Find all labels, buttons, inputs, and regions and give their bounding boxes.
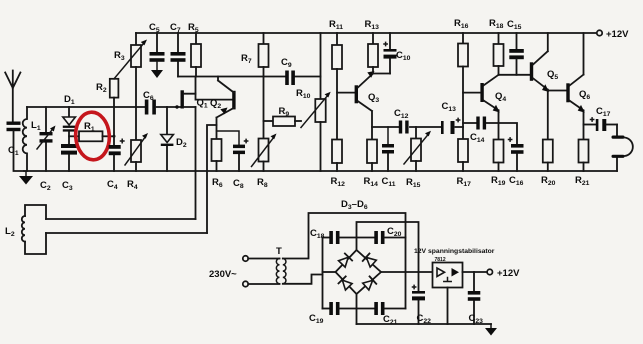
diode D1 [63,94,76,144]
capacitor C1 [7,122,25,172]
capacitor C3 [61,144,77,192]
capacitor C14 [463,117,499,145]
voltage regulator U1 7812 [414,248,495,288]
capacitor C21 [357,302,406,326]
ground bus (bottom of main circuit) [24,170,617,172]
capacitor C19 [309,302,357,325]
variable resistor R3 (wiper feeds R2) [114,33,147,107]
svg-text:12V spanningstabilisator: 12V spanningstabilisator [414,248,495,255]
capacitor C9 (series coupling) [281,57,295,85]
capacitor C17 (electrolytic to earphone) [584,106,618,131]
resistor R2 [96,79,118,138]
resistor R21 [575,140,590,188]
capacitor C6 (series coupling on signal line) [143,90,156,115]
resistor R18 [489,18,504,75]
wire (regulator output) [463,271,488,273]
wire (Q3 collector node to C10) [373,73,390,75]
svg-text:+12V: +12V [497,268,520,279]
capacitor C16 (electrolytic) [499,123,524,187]
wire (Q1 drain to Q2 base) [196,94,233,100]
wire (Q5 emitter to Q6 base) [548,90,567,92]
variable resistor R8 [252,134,277,190]
svg-text:7812: 7812 [435,257,446,263]
wire (bridge left vertex lead) [323,271,336,273]
resistor R1 [69,121,114,141]
resistor R6 [212,139,223,189]
capacitor C15 [507,19,524,75]
wire (regulator ground pin) [447,288,449,325]
wire (bridge diamond sides) [336,250,382,294]
bridge rectifier D3-D6 [341,199,368,211]
wire (bridge top/bottom vertex leads) [356,238,358,309]
wire (rectified output row to regulator) [381,271,433,273]
+12V output terminal [487,268,520,279]
+12V terminal [597,29,629,40]
inductor L1 [23,107,41,171]
230V terminals [209,256,248,287]
antenna [5,71,20,122]
ground [19,171,33,185]
transistor Q4 [480,75,506,140]
variable resistor R10 [296,33,331,171]
wire (DC+ top frame from bridge to C22 column) [357,222,419,272]
resistor R20 [541,140,556,188]
variable resistor R4 [125,107,148,191]
+12V supply rail (top) [136,32,597,34]
svg-text:D3–D6: D3–D6 [341,199,368,211]
loop antenna L2 [5,205,207,254]
svg-text:T: T [276,246,282,257]
capacitor C18 [310,228,357,244]
capacitor C4 (electrolytic) [107,136,124,191]
resistor R12 [331,140,346,189]
resistor R14 [364,140,379,189]
PSU ground rail [357,323,492,325]
variable resistor R15 [404,127,431,189]
wire (supply node row under R5: C7 to C9 to R10 branch) [178,76,321,78]
resistor R11 [329,19,343,140]
svg-text:230V~: 230V~ [209,269,237,280]
capacitor C12 [394,108,409,134]
capacitor C10 (electrolytic from rail) [384,33,411,74]
resistor R7 [241,33,269,77]
wire (Q1 source down to loop antenna L2) [195,107,197,219]
wire (secondary bottom to bridge left) [283,275,323,284]
diode D5 (lower-left arm) [339,276,353,290]
capacitor C8 (electrolytic) [217,131,248,190]
transistor Q6 [566,33,590,140]
earphone [612,125,633,172]
resistor R19 [491,140,506,188]
variable capacitor C2 [37,107,56,192]
diode D3 (upper-left arm) [338,254,352,268]
wire (divider tap to Q4 base) [463,92,480,94]
resistor R17 [457,139,472,188]
wire (after C6 to Q1 gate) [157,106,181,108]
red highlight ellipse around R1 [74,111,111,161]
capacitor C22 (electrolytic reservoir) [412,272,431,325]
capacitor C7 [170,22,186,77]
diode D2 [161,107,187,171]
svg-text:+12V: +12V [606,29,629,40]
capacitor C5 (decoupling to ground) [149,22,165,78]
wire (bridge bottom to PSU ground rail) [356,309,358,325]
wire (Q4 collector node to Q5 base) [499,74,530,76]
node (junction dot at Q1 gate) [175,105,178,108]
wire (R7 bottom down to R9/R8) [263,77,265,139]
resistor R13 [365,19,380,74]
transistor Q5 [530,33,559,140]
resistor R16 [454,18,469,139]
transistor Q3 [355,71,380,140]
transistor Q2 [210,77,236,140]
capacitor C23 [468,272,483,325]
capacitor C20 [357,226,406,244]
wire (bridge left rail) [322,238,324,309]
transformer T [276,246,286,284]
resistor R5 [188,22,201,77]
node: tuned-circuit top line [27,106,144,108]
diode D6 (lower-right arm) [362,276,376,290]
capacitor C11 [382,127,396,188]
PSU ground [485,324,497,336]
wire (mains to transformer primary) [248,259,279,285]
wire (secondary top to bridge outer frame) [283,213,406,309]
resistor R9 [264,106,302,126]
wire (Q3 emitter row to C12/C13) [372,126,463,128]
wire (Q2 emitter jog to L2 return) [207,125,217,233]
wire (bias divider tap to Q3 base) [337,92,355,94]
diode D4 (upper-right arm) [363,254,377,268]
capacitor C13 (electrolytic coupling) [441,101,460,134]
FET Q1 [181,77,208,110]
